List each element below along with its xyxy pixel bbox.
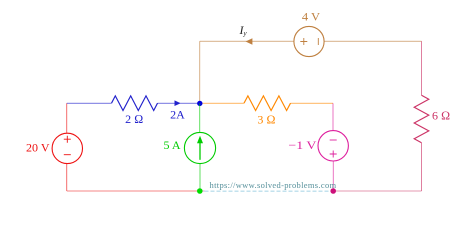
svg-text:3 Ω: 3 Ω — [257, 113, 275, 127]
wire: right rail bottom lead (pink) — [421, 143, 423, 191]
watermark link white cover — [205, 189, 332, 193]
wire: 5A bottom lead (green) — [199, 164, 201, 191]
wire: vertical from node A up to top rail (brown) — [199, 41, 201, 103]
wire: bottom rail left segment (red) — [67, 190, 200, 192]
wire: blue lead from R1 to node A — [158, 102, 200, 104]
wire: 5A top lead (green) — [199, 103, 201, 132]
arrow inside 5A source — [197, 136, 203, 160]
current arrow I_y (points left) — [246, 38, 253, 44]
resistor R2 (3 Ohm) — [244, 96, 291, 111]
svg-text:2 Ω: 2 Ω — [125, 112, 143, 126]
wire: right rail top lead (pink) — [421, 41, 423, 95]
node C (magenta junction dot) — [330, 188, 336, 194]
node A (blue junction dot) — [197, 101, 202, 106]
watermark underline (dashed cyan) — [205, 190, 332, 192]
wire: 20V top lead (red) — [66, 103, 68, 133]
svg-text:6 Ω: 6 Ω — [432, 109, 450, 123]
wire: orange lead from node A to R2 — [200, 102, 244, 104]
svg-text:5 A: 5 A — [163, 138, 180, 152]
current source I1 (5 A) — [184, 132, 215, 163]
wire: -1V bottom lead (magenta) — [332, 161, 334, 191]
wire: bottom rail right segment (pink) — [333, 190, 421, 192]
resistor R3 (6 Ohm) — [414, 95, 429, 143]
wire: bottom rail middle segment (pink) — [200, 190, 333, 192]
svg-text:20 V: 20 V — [26, 141, 50, 155]
voltage source V2 (-1 V) — [318, 131, 348, 161]
current arrow 2A (points right) — [175, 100, 181, 106]
svg-text:−1 V: −1 V — [288, 138, 316, 152]
svg-text:2A: 2A — [170, 107, 185, 121]
wire: 20V bottom lead (red) — [66, 164, 68, 191]
svg-text:Iy: Iy — [239, 23, 248, 37]
node B (green junction dot) — [197, 188, 203, 194]
voltage source V1 (20 V) — [52, 133, 82, 163]
voltage source U1 (4 V) — [294, 26, 324, 56]
wire: blue lead from left corner to R1 — [67, 102, 112, 104]
wire: top rail right of 4V source (brown) — [324, 40, 421, 42]
resistor R1 (2 Ohm) — [112, 96, 158, 111]
svg-text:https://www.solved-problems.co: https://www.solved-problems.com — [210, 180, 337, 190]
svg-text:4 V: 4 V — [302, 9, 321, 23]
wire: -1V top lead (magenta) — [332, 103, 334, 130]
wire: orange lead from R2 to right corner — [291, 102, 334, 104]
wire: top rail left of 4V source (brown) — [200, 40, 294, 42]
